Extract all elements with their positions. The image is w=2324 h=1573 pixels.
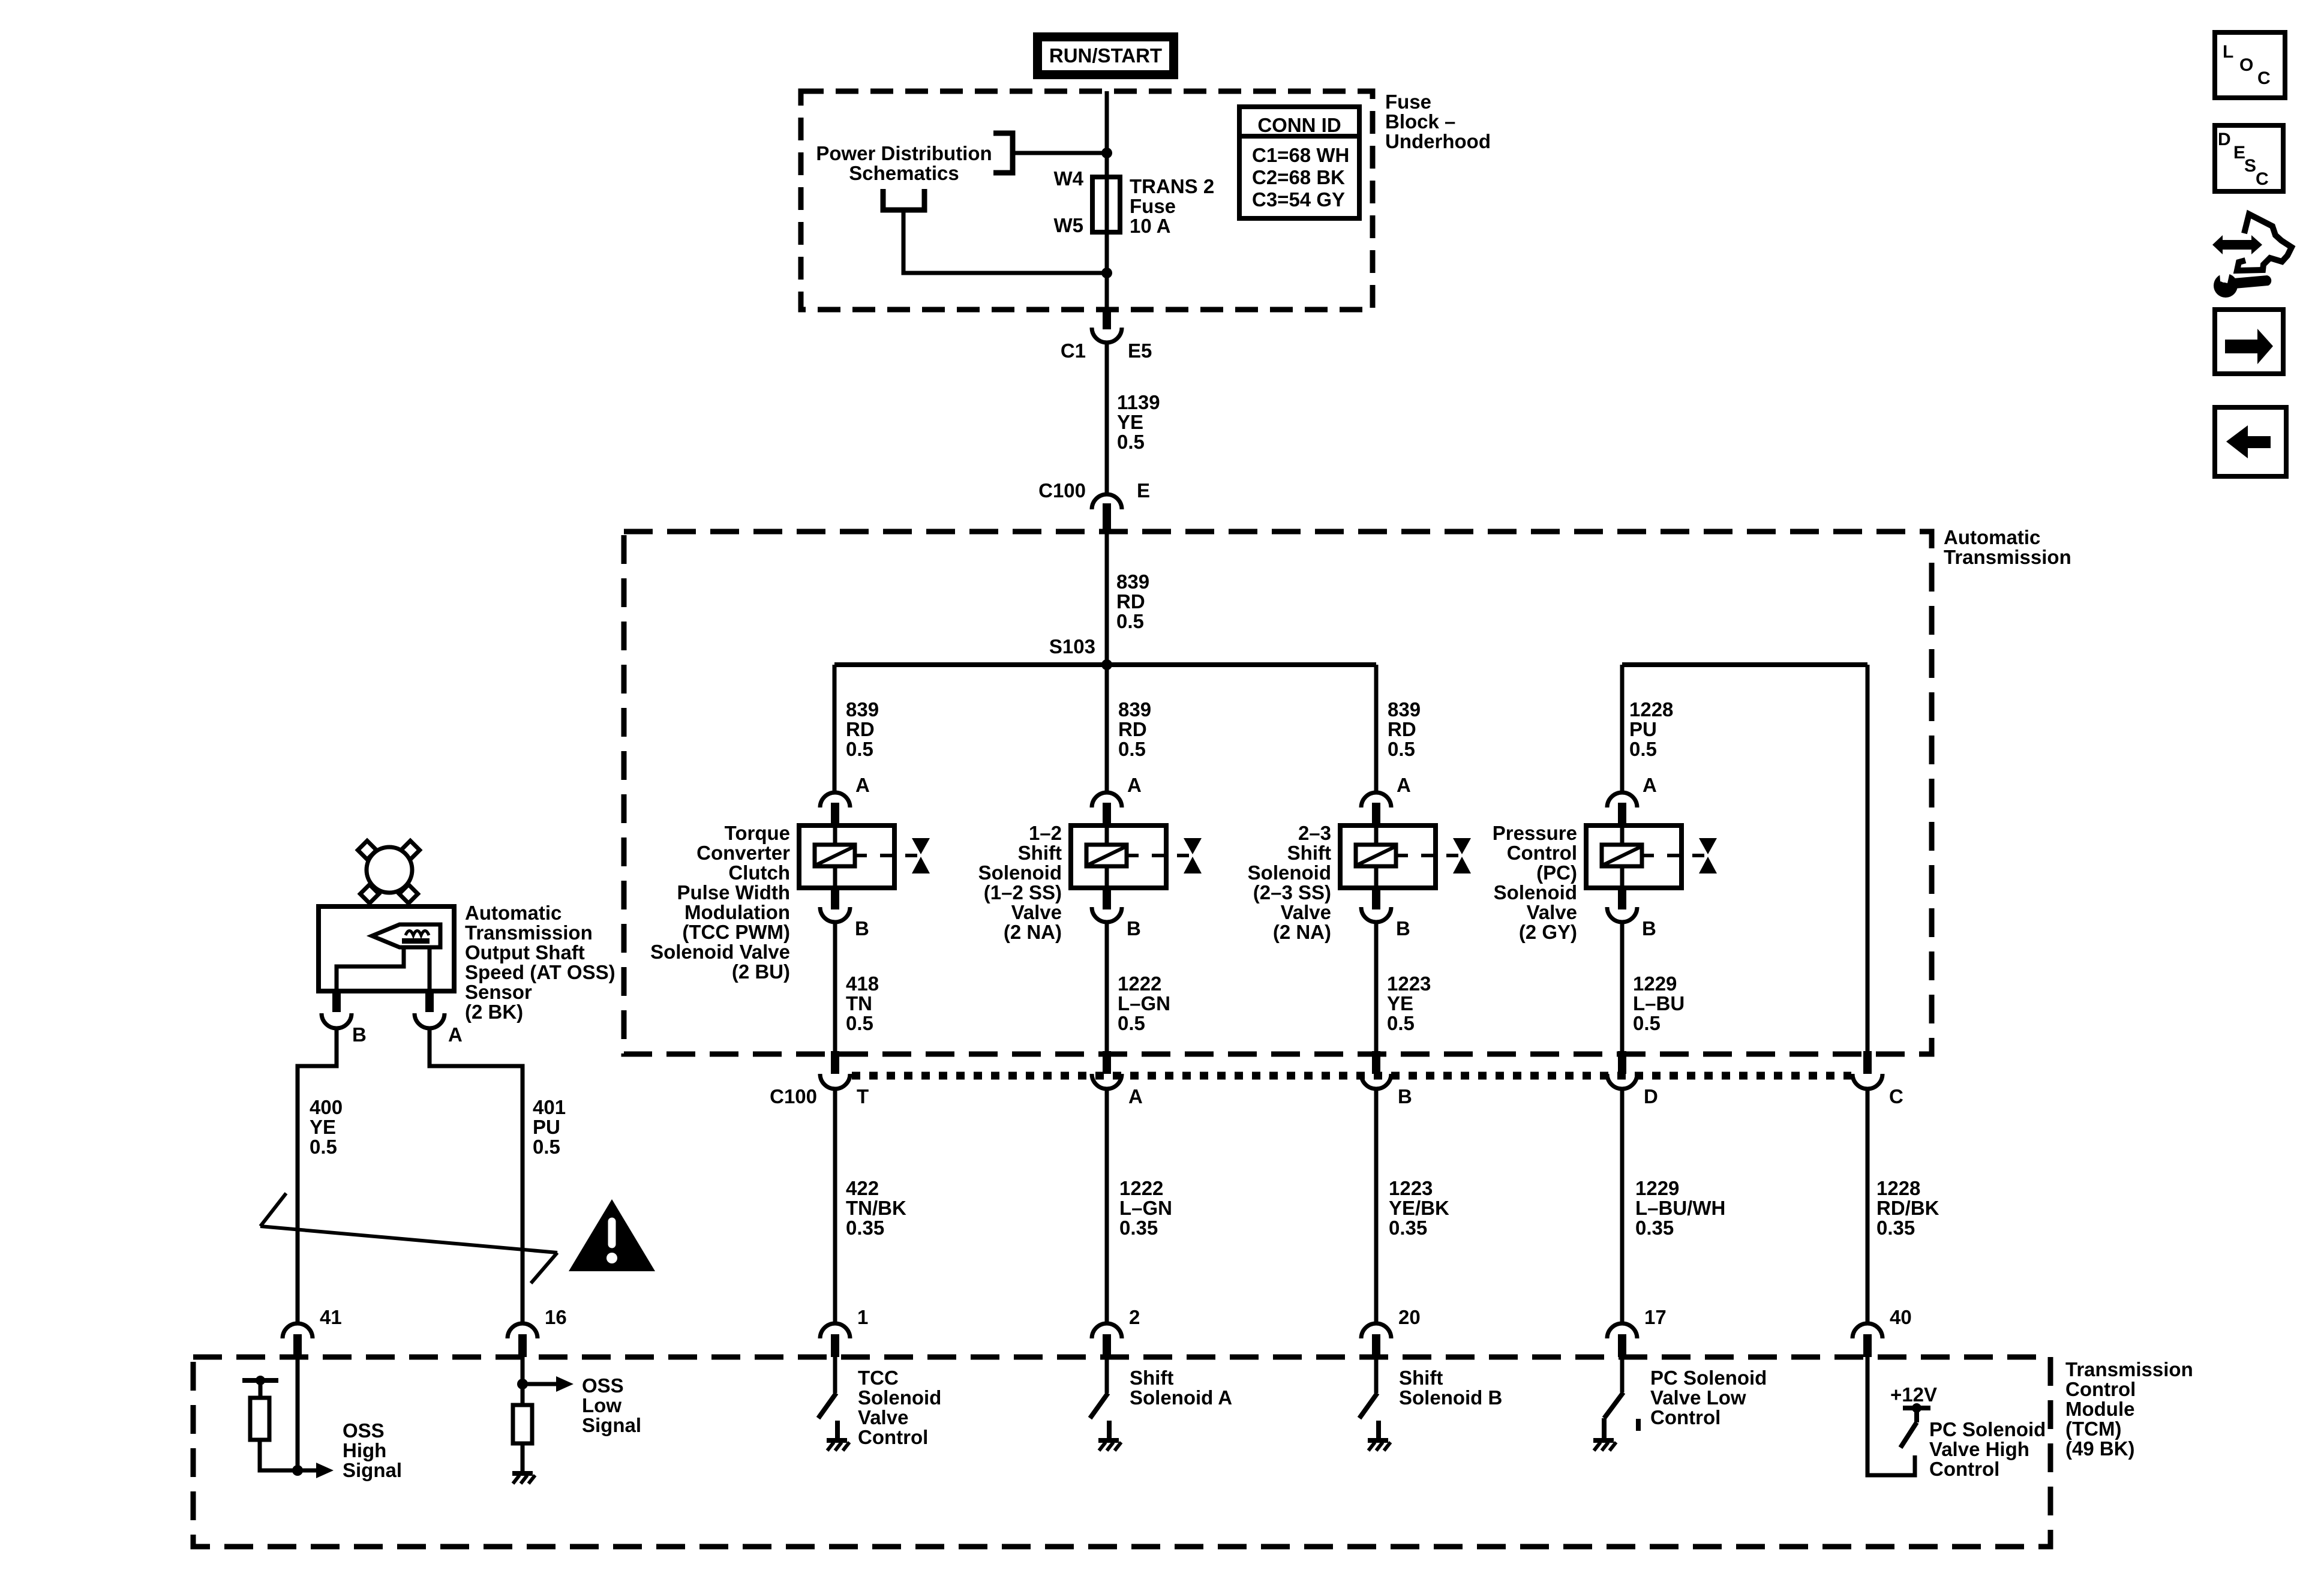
svg-text:1229: 1229 xyxy=(1633,972,1677,995)
svg-text:Solenoid A: Solenoid A xyxy=(1130,1386,1232,1409)
connector C100 pin D xyxy=(1618,1051,1626,1074)
svg-text:0.5: 0.5 xyxy=(1118,738,1146,760)
svg-text:Speed (AT OSS): Speed (AT OSS) xyxy=(465,961,615,983)
svg-text:Control: Control xyxy=(2065,1378,2136,1400)
stray mark xyxy=(1636,1419,1641,1431)
svg-text:Shift: Shift xyxy=(1287,842,1331,864)
resistor OSS high xyxy=(259,1380,263,1398)
valve symbol TCC PWM solenoid valve xyxy=(912,838,930,854)
valve dashed link PC solenoid valve xyxy=(1642,854,1715,857)
warning triangle xyxy=(569,1199,655,1271)
svg-text:Module: Module xyxy=(2065,1398,2134,1420)
svg-text:C: C xyxy=(2256,169,2269,189)
off-page bracket to Power Distribution xyxy=(993,133,1013,173)
terminal B of TCC PWM solenoid valve xyxy=(831,888,839,909)
connector C1/E5 xyxy=(1103,311,1111,329)
svg-text:A: A xyxy=(1643,774,1657,796)
svg-text:PU: PU xyxy=(1629,718,1657,740)
svg-text:(2 GY): (2 GY) xyxy=(1519,921,1577,943)
svg-text:C2=68 BK: C2=68 BK xyxy=(1252,166,1345,188)
svg-text:OSS: OSS xyxy=(343,1419,385,1442)
svg-text:Converter: Converter xyxy=(696,842,790,864)
svg-text:+12V: +12V xyxy=(1890,1383,1937,1406)
AT OSS sensor gear icon xyxy=(358,840,419,903)
svg-text:0.5: 0.5 xyxy=(1387,1012,1415,1034)
svg-text:2: 2 xyxy=(1129,1306,1140,1328)
valve symbol 2-3 shift solenoid valve xyxy=(1453,838,1471,854)
junction OSS low xyxy=(517,1379,528,1389)
svg-text:B: B xyxy=(855,917,869,939)
svg-text:S103: S103 xyxy=(1049,635,1095,658)
svg-text:0.35: 0.35 xyxy=(1876,1217,1915,1239)
svg-text:T: T xyxy=(857,1085,869,1107)
svg-text:Valve Low: Valve Low xyxy=(1650,1386,1746,1409)
connector TCM pin 17 xyxy=(1607,1323,1637,1338)
svg-text:Solenoid: Solenoid xyxy=(1494,881,1577,903)
wire bracket2 to node W5 xyxy=(903,210,1107,273)
ground OSS low xyxy=(512,1471,533,1476)
wire 400 YE xyxy=(298,1027,337,1323)
connector row C100 dotted line xyxy=(852,1072,1851,1080)
svg-text:Modulation: Modulation xyxy=(684,901,790,923)
svg-text:1: 1 xyxy=(857,1306,868,1328)
svg-text:16: 16 xyxy=(545,1306,567,1328)
wire 1228 PU to TCM pin40 xyxy=(1866,665,1870,1051)
svg-text:40: 40 xyxy=(1890,1306,1912,1328)
svg-text:YE: YE xyxy=(310,1116,336,1138)
svg-text:TN: TN xyxy=(846,992,872,1014)
svg-text:0.5: 0.5 xyxy=(310,1136,337,1158)
wire RUN/START feed xyxy=(1105,91,1109,311)
svg-text:1228: 1228 xyxy=(1876,1177,1920,1199)
wire 839 RD 0.5 main xyxy=(1105,532,1109,665)
svg-text:RUN/START: RUN/START xyxy=(1049,44,1162,67)
svg-text:TN/BK: TN/BK xyxy=(846,1197,906,1219)
driver switch pin 1845 xyxy=(1105,1357,1109,1393)
svg-text:D: D xyxy=(1644,1085,1658,1107)
TCM dashed box xyxy=(193,1357,2050,1547)
junction W5 xyxy=(1101,268,1112,278)
connector TCM pin 2 xyxy=(1092,1323,1122,1338)
svg-text:(TCC PWM): (TCC PWM) xyxy=(682,921,790,943)
sensor element flag xyxy=(372,924,440,947)
connector TCM pin 1 xyxy=(820,1323,850,1338)
wire 401 PU xyxy=(430,1027,523,1323)
svg-text:(2 NA): (2 NA) xyxy=(1273,921,1331,943)
fuse F TRANS2 10A xyxy=(1092,177,1120,232)
svg-text:0.35: 0.35 xyxy=(846,1217,884,1239)
svg-text:Transmission: Transmission xyxy=(465,921,593,944)
svg-text:Torque: Torque xyxy=(725,822,790,844)
connector C100 pin C xyxy=(1863,1051,1872,1074)
wire branch PC xyxy=(1620,665,1625,793)
svg-text:10 A: 10 A xyxy=(1130,215,1170,237)
connector C100 pin B xyxy=(1372,1051,1380,1074)
svg-text:OSS: OSS xyxy=(582,1374,624,1397)
svg-text:(2–3 SS): (2–3 SS) xyxy=(1253,881,1331,903)
svg-text:Signal: Signal xyxy=(343,1459,402,1481)
terminal A of PC solenoid valve xyxy=(1607,792,1637,807)
svg-text:RD: RD xyxy=(1118,718,1147,740)
+12V rail tick xyxy=(1903,1406,1930,1410)
svg-text:1223: 1223 xyxy=(1387,972,1431,995)
solenoid 1-2 shift solenoid valve xyxy=(1071,825,1166,888)
connector C100/E xyxy=(1092,494,1122,509)
wire branch 1-2 SS xyxy=(1105,665,1109,793)
arrow OSS Low Signal xyxy=(523,1382,556,1386)
svg-text:2–3: 2–3 xyxy=(1298,822,1331,844)
icon forward arrow box xyxy=(2215,310,2283,374)
svg-text:PU: PU xyxy=(533,1116,560,1138)
valve dashed link TCC PWM solenoid valve xyxy=(855,854,928,857)
svg-text:400: 400 xyxy=(310,1096,343,1118)
svg-text:YE: YE xyxy=(1387,992,1413,1014)
svg-text:401: 401 xyxy=(533,1096,566,1118)
valve symbol PC solenoid valve xyxy=(1699,838,1717,854)
driver switch pin 1392 xyxy=(833,1357,837,1393)
sensor terminal B xyxy=(332,991,341,1012)
svg-text:1222: 1222 xyxy=(1118,972,1161,995)
svg-text:(1–2 SS): (1–2 SS) xyxy=(984,881,1062,903)
svg-text:C1: C1 xyxy=(1061,340,1086,362)
wire branch TCC xyxy=(833,665,837,793)
svg-text:1–2: 1–2 xyxy=(1029,822,1062,844)
svg-text:Low: Low xyxy=(582,1394,621,1416)
connector C100 pin A xyxy=(1103,1051,1111,1074)
junction W4 xyxy=(1101,148,1112,158)
svg-text:0.5: 0.5 xyxy=(846,1012,873,1034)
wire 1223 YE xyxy=(1374,921,1379,1051)
svg-text:0.35: 0.35 xyxy=(1635,1217,1674,1239)
sensor internal wires xyxy=(337,947,404,991)
svg-text:1139: 1139 xyxy=(1117,391,1160,413)
svg-text:L–GN: L–GN xyxy=(1119,1197,1172,1219)
terminal A of 2-3 shift solenoid valve xyxy=(1361,792,1391,807)
svg-text:CONN ID: CONN ID xyxy=(1257,114,1341,136)
svg-text:W4: W4 xyxy=(1054,167,1084,190)
svg-text:B: B xyxy=(1398,1085,1412,1107)
svg-text:Control: Control xyxy=(858,1426,928,1448)
svg-text:Automatic: Automatic xyxy=(465,902,562,924)
svg-text:0.5: 0.5 xyxy=(1633,1012,1661,1034)
solenoid TCC PWM solenoid valve xyxy=(799,825,894,888)
svg-text:High: High xyxy=(343,1439,386,1461)
svg-text:YE: YE xyxy=(1117,411,1143,433)
svg-text:0.5: 0.5 xyxy=(533,1136,560,1158)
valve dashed link 2-3 shift solenoid valve xyxy=(1396,854,1469,857)
AT OSS sensor box xyxy=(319,906,454,991)
solenoid PC solenoid valve xyxy=(1586,825,1682,888)
icon LOC box xyxy=(2215,32,2285,98)
svg-text:A: A xyxy=(1127,774,1142,796)
svg-text:C100: C100 xyxy=(770,1085,817,1107)
wire S103 to PC feed xyxy=(1622,662,1867,667)
wire 1222 L–GN xyxy=(1105,921,1109,1051)
svg-text:PC Solenoid: PC Solenoid xyxy=(1929,1418,2046,1440)
icon repair action xyxy=(2212,235,2262,254)
svg-text:(PC): (PC) xyxy=(1536,861,1577,884)
svg-text:0.5: 0.5 xyxy=(1117,431,1145,453)
svg-text:0.5: 0.5 xyxy=(1629,738,1657,760)
svg-text:Valve: Valve xyxy=(1527,901,1577,923)
terminal B of PC solenoid valve xyxy=(1618,888,1626,909)
twisted pair symbol xyxy=(260,1226,557,1253)
svg-text:Automatic: Automatic xyxy=(1944,526,2040,548)
svg-text:Control: Control xyxy=(1650,1406,1721,1428)
svg-text:Valve: Valve xyxy=(858,1406,908,1428)
svg-text:PC Solenoid: PC Solenoid xyxy=(1650,1367,1767,1389)
svg-text:20: 20 xyxy=(1398,1306,1421,1328)
svg-text:A: A xyxy=(1397,774,1411,796)
svg-text:(TCM): (TCM) xyxy=(2065,1418,2121,1440)
svg-text:839: 839 xyxy=(1116,571,1149,593)
svg-text:(49 BK): (49 BK) xyxy=(2065,1437,2135,1460)
svg-text:S: S xyxy=(2244,156,2256,176)
driver switch pin 17 xyxy=(1620,1357,1625,1392)
solenoid 2-3 shift solenoid valve xyxy=(1340,825,1436,888)
Automatic Transmission dashed box xyxy=(624,532,1932,1054)
svg-text:(2 BU): (2 BU) xyxy=(732,960,790,983)
icon DESC box xyxy=(2215,125,2283,191)
terminal B of 1-2 shift solenoid valve xyxy=(1103,888,1111,909)
arrow OSS High Signal xyxy=(298,1469,316,1473)
svg-text:RD: RD xyxy=(1116,590,1145,613)
wire pin16 internal xyxy=(521,1357,525,1405)
svg-text:TRANS 2: TRANS 2 xyxy=(1130,175,1214,197)
connector TCM pin 40 xyxy=(1852,1323,1882,1338)
svg-text:Block –: Block – xyxy=(1385,110,1455,133)
internal rail tick high xyxy=(242,1378,278,1383)
svg-text:B: B xyxy=(1127,917,1141,939)
svg-text:Valve: Valve xyxy=(1281,901,1331,923)
wire 418 TN xyxy=(833,921,837,1051)
svg-text:1222: 1222 xyxy=(1119,1177,1163,1199)
svg-text:Shift: Shift xyxy=(1130,1367,1173,1389)
svg-text:Underhood: Underhood xyxy=(1385,130,1491,152)
svg-text:0.5: 0.5 xyxy=(846,738,873,760)
svg-text:0.35: 0.35 xyxy=(1389,1217,1427,1239)
svg-text:RD: RD xyxy=(846,718,875,740)
driver switch PC high xyxy=(1900,1422,1917,1448)
svg-text:839: 839 xyxy=(1118,698,1151,721)
svg-text:(2 NA): (2 NA) xyxy=(1004,921,1062,943)
connector TCM pin 41 xyxy=(283,1323,313,1338)
resistor OSS low xyxy=(513,1405,532,1443)
svg-text:Control: Control xyxy=(1929,1458,1999,1480)
svg-text:839: 839 xyxy=(1388,698,1421,721)
svg-text:Clutch: Clutch xyxy=(728,861,790,884)
svg-text:A: A xyxy=(1128,1085,1143,1107)
svg-text:O: O xyxy=(2239,55,2253,75)
valve dashed link 1-2 shift solenoid valve xyxy=(1127,854,1200,857)
svg-text:Shift: Shift xyxy=(1018,842,1062,864)
svg-text:41: 41 xyxy=(320,1306,342,1328)
svg-text:D: D xyxy=(2218,130,2231,149)
valve symbol 1-2 shift solenoid valve xyxy=(1184,838,1202,854)
svg-text:L–BU: L–BU xyxy=(1633,992,1685,1014)
svg-text:0.35: 0.35 xyxy=(1119,1217,1158,1239)
svg-text:RD: RD xyxy=(1388,718,1416,740)
svg-text:0.5: 0.5 xyxy=(1388,738,1415,760)
svg-text:0.5: 0.5 xyxy=(1116,610,1144,632)
svg-text:A: A xyxy=(855,774,870,796)
svg-text:Solenoid Valve: Solenoid Valve xyxy=(650,941,790,963)
svg-text:Control: Control xyxy=(1507,842,1577,864)
junction OSS high xyxy=(292,1465,303,1476)
svg-text:0.5: 0.5 xyxy=(1118,1012,1145,1034)
wire from bracket to node W4 xyxy=(1013,151,1107,155)
svg-text:W5: W5 xyxy=(1054,214,1084,236)
svg-text:B: B xyxy=(1396,917,1410,939)
svg-text:1223: 1223 xyxy=(1389,1177,1433,1199)
wire 1229 L–BU xyxy=(1620,921,1625,1051)
svg-text:418: 418 xyxy=(846,972,879,995)
wire 1139 YE 0.5 xyxy=(1105,342,1109,496)
svg-text:B: B xyxy=(352,1023,367,1046)
svg-text:422: 422 xyxy=(846,1177,879,1199)
svg-text:RD/BK: RD/BK xyxy=(1876,1197,1939,1219)
svg-text:Valve: Valve xyxy=(1011,901,1062,923)
terminal A of 1-2 shift solenoid valve xyxy=(1092,792,1122,807)
wire pin41 internal xyxy=(296,1357,300,1470)
svg-text:B: B xyxy=(1642,917,1656,939)
svg-text:Fuse: Fuse xyxy=(1385,91,1431,113)
fuse block dashed box xyxy=(801,91,1373,310)
svg-text:E: E xyxy=(1137,479,1150,502)
svg-text:L–BU/WH: L–BU/WH xyxy=(1635,1197,1725,1219)
CONN ID table xyxy=(1239,107,1359,218)
svg-text:Solenoid B: Solenoid B xyxy=(1399,1386,1502,1409)
svg-text:A: A xyxy=(448,1023,463,1046)
wire pin40 internal xyxy=(1867,1357,1915,1475)
connector TCM pin 20 xyxy=(1361,1323,1391,1338)
svg-text:L: L xyxy=(2223,42,2233,62)
svg-text:17: 17 xyxy=(1644,1306,1667,1328)
svg-text:Output Shaft: Output Shaft xyxy=(465,941,585,963)
svg-text:C: C xyxy=(2257,68,2271,88)
terminal A of TCC PWM solenoid valve xyxy=(820,792,850,807)
svg-text:E5: E5 xyxy=(1128,340,1152,362)
svg-text:E: E xyxy=(2233,143,2245,163)
svg-text:Fuse: Fuse xyxy=(1130,195,1176,217)
wire branch 2-3 SS xyxy=(1374,665,1379,793)
svg-text:Sensor: Sensor xyxy=(465,981,532,1003)
svg-text:TCC: TCC xyxy=(858,1367,899,1389)
driver switch pin 2294 xyxy=(1374,1357,1379,1393)
svg-text:839: 839 xyxy=(846,698,879,721)
svg-text:1228: 1228 xyxy=(1629,698,1673,721)
connector C100 pin T xyxy=(831,1051,839,1074)
svg-text:Transmission: Transmission xyxy=(1944,546,2071,568)
icon back arrow box xyxy=(2215,407,2286,476)
svg-text:C: C xyxy=(1889,1085,1903,1107)
svg-text:Solenoid: Solenoid xyxy=(858,1386,941,1409)
svg-text:Valve High: Valve High xyxy=(1929,1438,2029,1460)
svg-text:Solenoid: Solenoid xyxy=(1248,861,1331,884)
svg-text:Power Distribution: Power Distribution xyxy=(816,142,992,164)
svg-text:Pressure: Pressure xyxy=(1493,822,1577,844)
terminal B of 2-3 shift solenoid valve xyxy=(1372,888,1380,909)
svg-text:Transmission: Transmission xyxy=(2065,1358,2193,1380)
svg-text:1229: 1229 xyxy=(1635,1177,1679,1199)
sensor terminal A xyxy=(425,991,434,1012)
svg-text:L–GN: L–GN xyxy=(1118,992,1170,1014)
svg-text:C100: C100 xyxy=(1038,479,1086,502)
connector TCM pin 16 xyxy=(508,1323,538,1338)
svg-text:C3=54 GY: C3=54 GY xyxy=(1252,188,1345,211)
svg-text:Signal: Signal xyxy=(582,1414,641,1436)
svg-text:(2 BK): (2 BK) xyxy=(465,1001,523,1023)
power node RUN/START xyxy=(1033,32,1178,79)
svg-text:Schematics: Schematics xyxy=(849,162,959,184)
svg-text:Shift: Shift xyxy=(1399,1367,1443,1389)
svg-text:C1=68 WH: C1=68 WH xyxy=(1252,144,1349,166)
svg-text:Solenoid: Solenoid xyxy=(978,861,1062,884)
svg-text:Pulse Width: Pulse Width xyxy=(677,881,790,903)
off-page bracket 2 to Power Distribution xyxy=(883,189,924,210)
svg-text:YE/BK: YE/BK xyxy=(1389,1197,1449,1219)
